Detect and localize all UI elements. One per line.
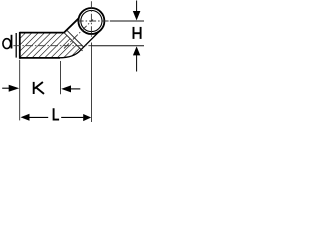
L dimension line left part bbox=[29, 116, 48, 118]
L right extension line bbox=[91, 43, 93, 123]
label H bbox=[134, 27, 141, 39]
body outline: left end face bbox=[19, 32, 21, 59]
H upper extension line bbox=[110, 20, 144, 22]
weld seam line 2 bbox=[67, 30, 84, 47]
H top arrow bbox=[133, 1, 141, 21]
L dimension line right part bbox=[61, 116, 83, 118]
label d bbox=[3, 35, 12, 49]
left socket rim line bbox=[15, 33, 17, 58]
45deg arm axis centerline (dash-dot) bbox=[64, 19, 93, 48]
K right arrow bbox=[61, 85, 80, 92]
circle horizontal crosshair bbox=[77, 20, 112, 22]
L right arrow bbox=[83, 114, 91, 121]
body outline: pipe top edge + 45deg arm upper silhouette bbox=[20, 18, 79, 32]
hatching of sectioned body bbox=[0, 0, 140, 86]
H lower extension line bbox=[92, 45, 144, 47]
body outline: bottom edge bbox=[20, 57, 60, 59]
body outline: arm lower silhouette and fillet arc bbox=[59, 30, 101, 58]
label K bbox=[34, 82, 44, 94]
K left arrow bbox=[2, 85, 19, 92]
left extension line (K/L) bbox=[19, 60, 21, 121]
outlet socket outer circle bbox=[78, 8, 104, 34]
weld seam line 1 bbox=[64, 33, 82, 51]
outlet socket inner circle (bore) bbox=[81, 10, 102, 31]
L left arrow bbox=[21, 114, 30, 121]
label L bbox=[54, 108, 60, 119]
horizontal centerline (dash-dot) bbox=[13, 45, 92, 47]
K right extension line bbox=[60, 61, 62, 94]
H bottom arrow bbox=[133, 46, 140, 71]
circle vertical crosshair bbox=[90, 1, 92, 38]
